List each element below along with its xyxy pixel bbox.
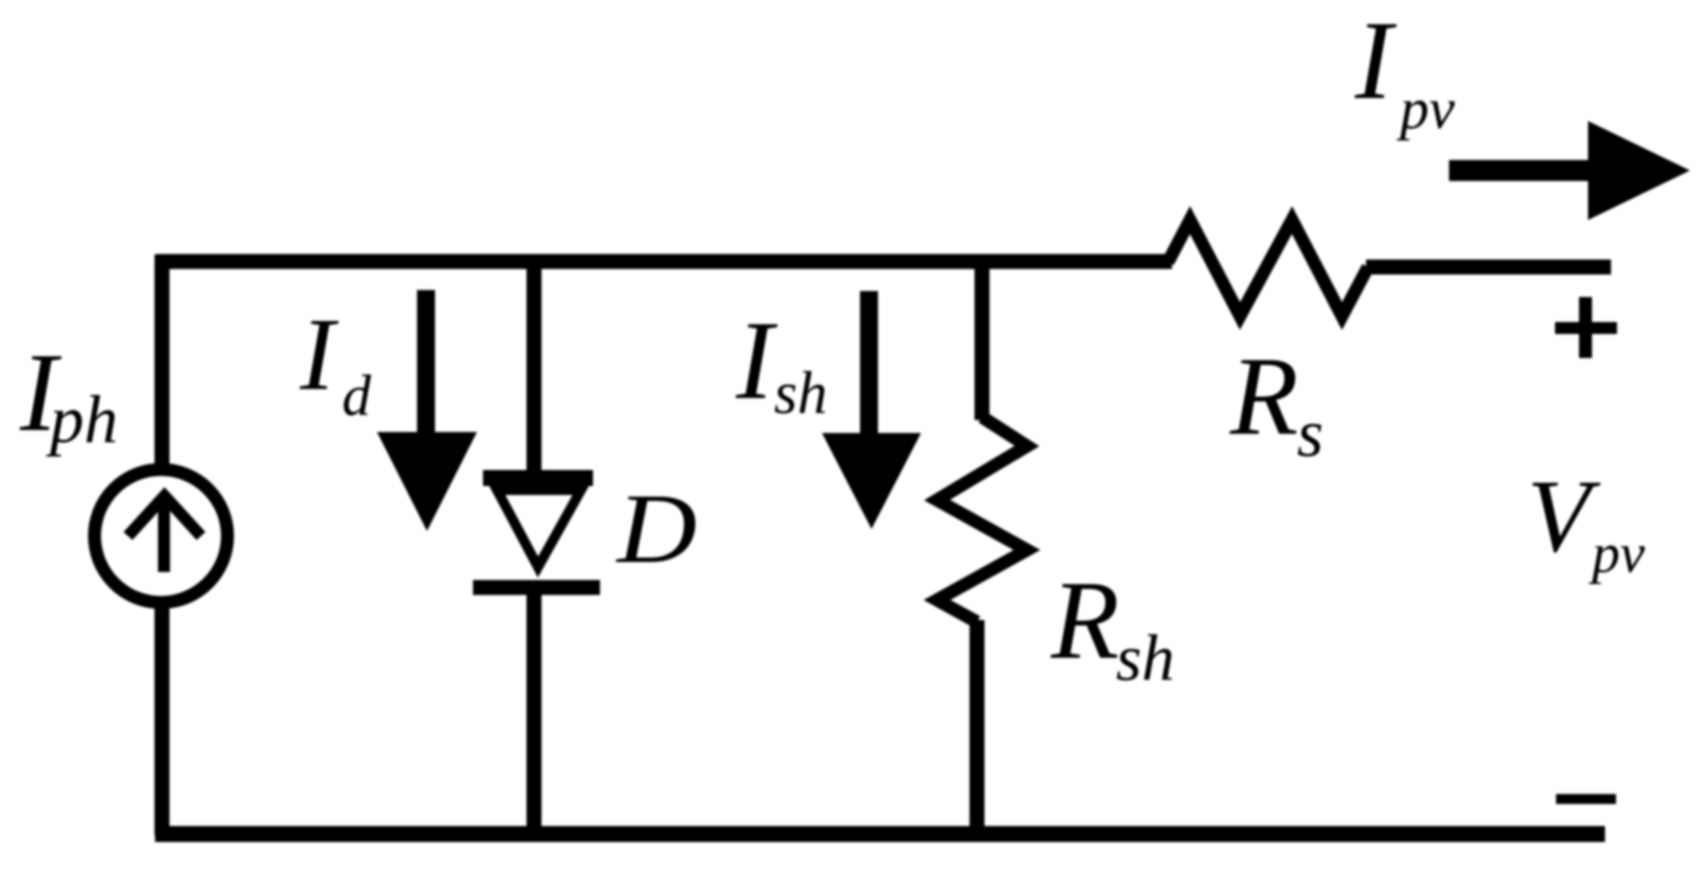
wire: diode branch bottom (527, 593, 542, 835)
wire: top horizontal bus (155, 254, 1172, 269)
label Vpv (1527, 459, 1645, 585)
label Ish (735, 299, 827, 426)
diode D symbol (473, 470, 600, 595)
label Rsh (1050, 559, 1175, 695)
wire: left vertical (source branch, upper) (155, 255, 170, 469)
svg-text:R: R (1050, 559, 1119, 683)
svg-text:I: I (299, 297, 339, 412)
svg-text:V: V (1527, 459, 1601, 574)
svg-text:d: d (342, 363, 372, 428)
svg-text:sh: sh (1116, 622, 1175, 695)
resistor Rsh zigzag (937, 417, 1027, 622)
current source Iph circle (95, 470, 228, 603)
svg-text:I: I (1354, 0, 1397, 123)
wire: output top right (1366, 260, 1611, 275)
label Rs (1229, 335, 1323, 471)
svg-text:s: s (1297, 395, 1323, 471)
wire: bottom horizontal bus (155, 826, 1605, 842)
wire: diode branch top (527, 262, 542, 478)
svg-text:R: R (1229, 335, 1298, 459)
svg-text:sh: sh (774, 360, 827, 426)
svg-text:ph: ph (46, 381, 118, 457)
arrow: Ish shunt current (822, 291, 921, 529)
svg-text:pv: pv (1396, 76, 1455, 141)
wire: left vertical (source branch, lower) (155, 608, 170, 835)
arrow: Id diode current (377, 290, 477, 531)
svg-text:pv: pv (1588, 523, 1645, 585)
svg-text:D: D (615, 473, 697, 584)
wire: shunt branch bottom (970, 620, 985, 835)
current source arrow (points up) (128, 496, 201, 572)
minus terminal (1556, 794, 1616, 804)
label Ipv (1354, 0, 1455, 141)
arrow: Ipv output current (1449, 121, 1690, 220)
label Iph (19, 331, 118, 457)
plus terminal (1555, 297, 1617, 358)
resistor Rs zigzag (1168, 220, 1368, 316)
svg-text:I: I (735, 299, 778, 423)
label Id (299, 297, 372, 428)
wire: shunt branch top (975, 262, 990, 420)
